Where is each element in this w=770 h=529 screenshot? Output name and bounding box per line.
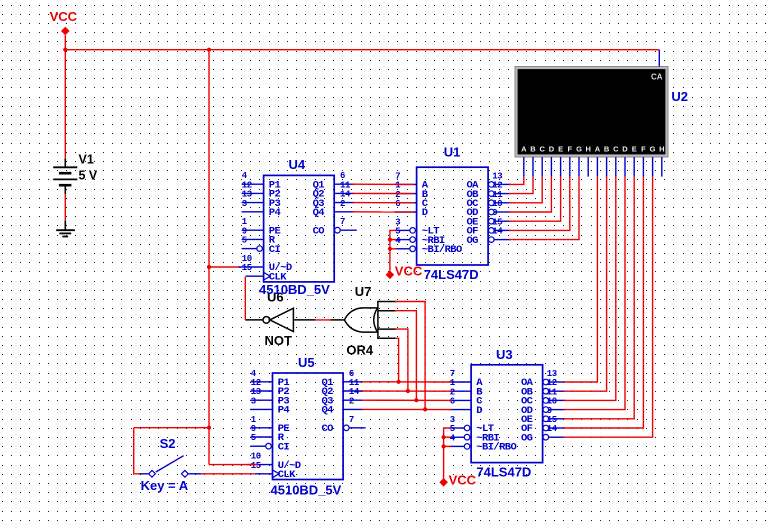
svg-text:V1: V1: [79, 153, 94, 167]
U5 pin numbers: [251, 369, 360, 471]
power VCC symbol (U1): [386, 264, 423, 280]
wire U7 input 4: [395, 338, 399, 382]
svg-text:H: H: [659, 144, 664, 153]
svg-text:H: H: [585, 144, 590, 153]
wire VCC to V1: [64, 35, 66, 158]
svg-text:6: 6: [395, 199, 400, 209]
U4 pin numbers: [242, 171, 351, 273]
wire S2 feed horizontal: [134, 427, 209, 429]
wire U1 OC to display: [509, 177, 542, 203]
U1 pins (stubs): [395, 182, 511, 252]
wire U5 Q to U3: [362, 390, 452, 392]
svg-text:Q4: Q4: [313, 207, 325, 219]
svg-text:C: C: [539, 144, 545, 153]
wire U3 OD to display: [563, 177, 625, 410]
svg-text:U4: U4: [289, 157, 306, 172]
U2 pins: [524, 50, 662, 177]
svg-text:E: E: [632, 144, 637, 153]
wire U4 Q to U1: [353, 211, 414, 213]
junction rail x209: [207, 48, 211, 52]
junction U4 U/~D branch: [207, 265, 211, 269]
svg-text:6: 6: [450, 397, 455, 407]
svg-text:A: A: [521, 144, 527, 153]
wire U7 input 2: [395, 311, 416, 401]
wire V1 to ground: [64, 194, 66, 221]
wire U6 in to U7 out: [315, 319, 332, 321]
svg-text:CA: CA: [651, 73, 663, 82]
svg-text:U3: U3: [496, 347, 513, 362]
svg-text:VCC: VCC: [50, 9, 78, 24]
svg-text:OG: OG: [466, 235, 478, 247]
svg-text:4510BD_5V: 4510BD_5V: [271, 482, 342, 497]
svg-text:CO: CO: [313, 225, 325, 237]
wire U1 OG to display: [509, 177, 579, 240]
svg-text:VCC: VCC: [449, 472, 477, 487]
svg-text:P4: P4: [269, 207, 281, 219]
svg-text:F: F: [641, 144, 646, 153]
svg-text:A: A: [595, 144, 601, 153]
junction S2 branch: [207, 426, 211, 430]
decoder U1 74LS47D body: [417, 167, 489, 265]
svg-text:5 V: 5 V: [79, 169, 98, 183]
decoder U3 74LS47D body: [471, 365, 542, 463]
junction OR input at Q row: [414, 398, 418, 402]
svg-text:Q4: Q4: [321, 405, 333, 417]
ground: [56, 221, 75, 237]
wire U5 Q to U3: [362, 381, 452, 383]
wire U1 OB to display: [509, 177, 533, 194]
wire U1 VCC to BI: [390, 248, 397, 250]
svg-text:S2: S2: [160, 436, 176, 451]
svg-text:U1: U1: [444, 145, 461, 160]
wire drop to U4 U/~D: [209, 266, 238, 268]
svg-text:OR4: OR4: [346, 343, 374, 358]
counter U4 4510BD_5V body: [264, 175, 335, 283]
wire rail drop to S2/U-D: [208, 50, 210, 465]
svg-text:B: B: [604, 144, 610, 153]
svg-text:74LS47D: 74LS47D: [476, 465, 531, 480]
svg-text:3: 3: [242, 199, 247, 209]
svg-text:D: D: [549, 144, 555, 153]
U1 pin numbers: [395, 171, 503, 245]
wire U1 OF to display: [509, 177, 570, 231]
svg-text:C: C: [613, 144, 619, 153]
wire U3 OG to display: [563, 177, 652, 438]
svg-text:E: E: [558, 144, 563, 153]
wire U3 VCC riser: [444, 428, 451, 479]
svg-text:U2: U2: [671, 89, 688, 104]
wire U1 VCC to RBI: [390, 239, 397, 241]
wire U4 CLK to U6 out: [244, 277, 246, 320]
junction VCC rail left: [63, 48, 67, 52]
wire U5 Q to U3: [362, 408, 452, 410]
svg-text:2: 2: [340, 199, 345, 209]
wire U7 input 1: [395, 302, 425, 410]
wire U3 VCC to BI: [444, 445, 451, 447]
svg-text:2: 2: [349, 396, 354, 406]
junction U1 RBI: [388, 238, 392, 242]
svg-text:G: G: [576, 144, 582, 153]
wire U4 Q to U1: [353, 183, 414, 185]
svg-text:U7: U7: [355, 284, 372, 299]
svg-text:~BI/RBO: ~BI/RBO: [422, 244, 462, 256]
battery V1 5V: [53, 158, 77, 194]
wire U1 VCC riser: [390, 230, 397, 271]
svg-text:NOT: NOT: [265, 333, 293, 348]
svg-text:3: 3: [251, 396, 256, 406]
junction OR input at Q row: [406, 389, 410, 393]
svg-text:5: 5: [242, 236, 247, 246]
power VCC symbol (top): [50, 9, 78, 36]
wire U3 OE to display: [563, 177, 634, 419]
or-gate U7 OR4: [330, 301, 396, 339]
wire U3 OF to display: [563, 177, 643, 428]
svg-text:D: D: [622, 144, 628, 153]
svg-text:15: 15: [251, 461, 261, 471]
wire U3 OB to display: [563, 177, 606, 392]
wire U1 OE to display: [509, 177, 561, 222]
wire S2 feed vertical: [134, 428, 140, 474]
svg-text:4510BD_5V: 4510BD_5V: [259, 282, 330, 297]
junction U3 BI: [442, 444, 446, 448]
wire U3 VCC to RBI: [444, 436, 451, 438]
svg-text:CI: CI: [278, 441, 290, 453]
svg-text:B: B: [530, 144, 536, 153]
U3 pins (stubs): [449, 379, 565, 449]
svg-text:VCC: VCC: [395, 264, 423, 279]
svg-text:D: D: [422, 207, 428, 219]
svg-text:74LS47D: 74LS47D: [424, 267, 479, 282]
junction U3 RBI: [442, 435, 446, 439]
svg-text:CI: CI: [269, 244, 281, 256]
wire U1 OA to display: [509, 177, 524, 185]
display U2 dual seven-segment (CA): [515, 67, 668, 158]
svg-text:~BI/RBO: ~BI/RBO: [476, 442, 516, 454]
U3 pin numbers: [450, 369, 558, 443]
U4 pins (stubs): [238, 184, 357, 280]
junction OR input at Q row: [397, 380, 401, 384]
svg-text:F: F: [568, 144, 573, 153]
svg-text:CO: CO: [321, 423, 333, 435]
svg-text:U5: U5: [298, 355, 315, 370]
power VCC symbol (U3): [439, 472, 476, 487]
svg-text:15: 15: [242, 263, 252, 273]
svg-text:P4: P4: [278, 405, 290, 417]
svg-text:Key = A: Key = A: [141, 478, 189, 493]
wire U3 OC to display: [563, 177, 615, 401]
wire U3 OA to display: [563, 177, 597, 382]
wire U1 OD to display: [509, 177, 552, 212]
svg-text:5: 5: [251, 433, 256, 443]
wire VCC rail: [65, 49, 659, 51]
wire drop to U5 U/~D: [209, 464, 258, 466]
svg-text:G: G: [650, 144, 656, 153]
switch S2: [139, 456, 201, 478]
U5 pins (stubs): [247, 382, 366, 478]
junction OR input at Q row: [423, 407, 427, 411]
svg-text:OG: OG: [521, 432, 533, 444]
svg-text:D: D: [476, 405, 482, 417]
counter U5 4510BD_5V body: [273, 373, 344, 481]
svg-text:7: 7: [349, 415, 354, 425]
inverter U6 NOT gate: [245, 308, 316, 331]
wire U7 input 3: [395, 329, 408, 391]
wire U4 Q to U1: [353, 192, 414, 194]
wire S2 to U5 CLK: [201, 473, 254, 475]
junction U1 BI: [388, 247, 392, 251]
svg-text:7: 7: [340, 217, 345, 227]
wire U4 Q to U1: [353, 202, 414, 204]
wire U5 Q to U3: [362, 399, 452, 401]
